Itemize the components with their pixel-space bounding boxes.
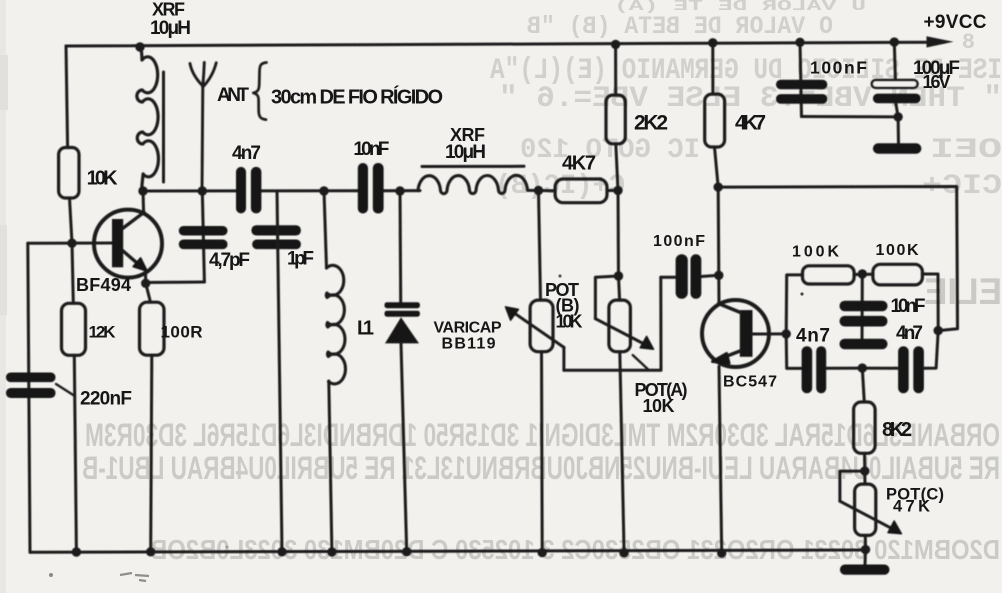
node POT A top bbox=[614, 271, 623, 280]
svg-text:ELIE: ELIE bbox=[924, 271, 1002, 312]
small paper specks bbox=[558, 274, 561, 277]
antenna bbox=[190, 62, 216, 191]
node 100uF 100nF bbox=[893, 112, 902, 121]
node phase bottom bbox=[858, 363, 867, 372]
node collector bus bbox=[138, 186, 147, 195]
svg-text:XRF: XRF bbox=[152, 0, 185, 20]
wire 100nF to 100uF junction bbox=[802, 115, 899, 118]
capacitor 4n7 phase left bbox=[802, 346, 827, 393]
transistor BF494 bbox=[94, 191, 162, 283]
svg-text:4K7: 4K7 bbox=[735, 112, 766, 135]
resistor 8K2 bbox=[854, 402, 876, 453]
wire emitter to 100R bbox=[146, 283, 151, 302]
svg-text:OEI: OEI bbox=[930, 135, 1002, 166]
wire 10K to base node bbox=[70, 198, 73, 243]
svg-text:100K: 100K bbox=[876, 242, 919, 259]
220nF label pointer bbox=[56, 384, 74, 396]
wire +9V top rail bbox=[66, 42, 944, 46]
svg-text:L1: L1 bbox=[357, 318, 374, 340]
svg-text:10μH: 10μH bbox=[150, 18, 191, 39]
wire 100nF left lead bbox=[661, 276, 676, 279]
wire 220nF branch bbox=[28, 243, 30, 552]
varicap BB119 bbox=[385, 302, 420, 343]
svg-text:100nF: 100nF bbox=[653, 233, 705, 250]
capacitor 220nF bbox=[6, 373, 56, 399]
svg-text:4n7: 4n7 bbox=[232, 143, 261, 164]
svg-text:100nF: 100nF bbox=[810, 58, 867, 78]
svg-text:2K2: 2K2 bbox=[634, 112, 668, 135]
wire base node horizontal bbox=[28, 242, 113, 245]
wire coil to 4K7 bbox=[528, 189, 556, 192]
svg-text:4,7pF: 4,7pF bbox=[209, 250, 250, 271]
inductor L1 bbox=[326, 265, 345, 384]
svg-text:16V: 16V bbox=[923, 72, 951, 92]
svg-text:100R: 100R bbox=[161, 323, 203, 342]
capacitor 4.7pF bbox=[179, 226, 228, 249]
transistor BC547 bbox=[702, 300, 786, 553]
wire 12K to ground rail bbox=[74, 355, 76, 552]
resistor 4K7 series bbox=[555, 179, 607, 203]
node BF494 emitter bbox=[141, 279, 150, 288]
capacitor 1pF bbox=[251, 225, 301, 249]
svg-text:10nF: 10nF bbox=[353, 139, 389, 160]
svg-text:BF494: BF494 bbox=[76, 275, 131, 295]
coil core line bbox=[422, 165, 524, 168]
svg-text:+9VCC: +9VCC bbox=[924, 12, 987, 33]
svg-text:4n7: 4n7 bbox=[796, 326, 830, 347]
wire rail to 4K7 bbox=[711, 43, 714, 94]
wire bus to POT B bbox=[539, 190, 541, 300]
node ground right bbox=[861, 545, 870, 554]
inductor XRF 10uH horizontal bbox=[418, 175, 528, 193]
wire main bus segment 2 bbox=[261, 189, 358, 192]
wire varicap to ground rail bbox=[401, 343, 407, 551]
svg-text:8: 8 bbox=[962, 30, 975, 55]
wire 2K2 to bus bbox=[616, 144, 618, 191]
capacitor 10nF phase bbox=[840, 274, 888, 349]
node bus varicap bbox=[395, 186, 404, 195]
wire feedback loop right bbox=[718, 187, 957, 331]
capacitor 100nF decoupling bbox=[776, 80, 827, 104]
wire base to 100K top bbox=[786, 275, 802, 334]
wire right cap to phase right node bbox=[924, 331, 938, 369]
wire 1pF branch to ground bbox=[277, 191, 282, 552]
wire POT A to ground rail bbox=[620, 352, 624, 553]
node antenna bus bbox=[198, 186, 207, 195]
node varicap ground bbox=[402, 547, 411, 556]
wire to top ground bbox=[897, 117, 900, 143]
resistor 2K2 bbox=[606, 95, 625, 144]
wire phase bottom to right cap bbox=[862, 367, 898, 370]
svg-text:4K7: 4K7 bbox=[562, 153, 596, 175]
potentiometer POT A bbox=[595, 276, 653, 352]
svg-text:10nF: 10nF bbox=[891, 296, 926, 317]
svg-text:1pF: 1pF bbox=[287, 249, 314, 270]
node L1 ground bbox=[327, 547, 336, 556]
node phase right bbox=[934, 326, 943, 335]
node rail 12K bbox=[72, 547, 81, 556]
inductor XRF 10uH vertical choke bbox=[137, 46, 159, 192]
resistor 100K second bbox=[873, 264, 923, 285]
node collector 100nF bbox=[714, 271, 723, 280]
ground symbol right bbox=[840, 550, 890, 575]
wire 100K1 to 100K2 bbox=[854, 273, 873, 276]
svg-text:10K: 10K bbox=[87, 167, 119, 189]
svg-text:10K: 10K bbox=[556, 312, 583, 332]
wire antenna line down through 4.7pF bbox=[202, 191, 204, 282]
ground symbol top right bbox=[873, 143, 922, 153]
node rail 100R bbox=[146, 547, 155, 556]
ANT brace bbox=[253, 63, 266, 120]
svg-text:O VALOR DE BETA (B) "B: O VALOR DE BETA (B) "B bbox=[527, 12, 833, 41]
capacitor 10nF series bbox=[358, 163, 384, 214]
wire 100K2 right lead bbox=[922, 274, 938, 331]
wire base node to 12K bbox=[72, 243, 73, 303]
svg-text:4n7: 4n7 bbox=[896, 323, 923, 344]
node 4K7 feedback bbox=[714, 182, 723, 191]
potentiometer POT C bbox=[840, 471, 902, 535]
node bus POT B bbox=[534, 186, 543, 195]
node bus 2K2 bbox=[613, 186, 622, 195]
node POT B ground bbox=[538, 548, 547, 557]
wire main bus segment 3 bbox=[383, 189, 420, 192]
node rail 4K7 bbox=[708, 38, 717, 47]
+9VCC supply arrow bbox=[927, 36, 954, 47]
capacitor 4n7 phase right bbox=[898, 346, 924, 393]
svg-text:ANT: ANT bbox=[217, 85, 249, 106]
svg-text:10μH: 10μH bbox=[445, 142, 486, 163]
wire 4K7 to 2K2 node bbox=[607, 189, 618, 192]
wire 100uF to ground node bbox=[896, 103, 898, 117]
svg-text:100K: 100K bbox=[792, 244, 839, 261]
wire 100R to ground rail bbox=[151, 355, 152, 552]
node choke top rail bbox=[135, 42, 144, 51]
choke core line bbox=[162, 72, 165, 182]
node rail 100nF decoupling bbox=[795, 38, 804, 47]
wire emitter to 4.7pF branch bbox=[146, 281, 205, 285]
resistor 10K bbox=[59, 148, 79, 199]
wire rail to 2K2 bbox=[614, 44, 617, 95]
wire bottom ground rail bbox=[30, 550, 866, 552]
node POT A ground bbox=[619, 548, 628, 557]
node 100K junction bbox=[858, 269, 867, 278]
wire L1 to ground rail bbox=[329, 381, 332, 552]
capacitor 4n7 input bbox=[236, 167, 261, 214]
wire base to 4n7 bottom bbox=[786, 334, 801, 369]
node rail 2K2 bbox=[611, 40, 620, 49]
node 8K2 POT C bbox=[860, 466, 869, 475]
svg-text:BC547: BC547 bbox=[723, 374, 777, 391]
node BC547 emitter ground bbox=[717, 548, 726, 557]
svg-text:VARICAP: VARICAP bbox=[434, 320, 502, 337]
wire phase bottom middle bbox=[826, 367, 862, 370]
capacitor 100nF coupling bbox=[676, 254, 702, 298]
wire POT B to ground rail bbox=[540, 352, 544, 553]
node 1pF ground bbox=[277, 547, 286, 556]
wire rail to 10K bbox=[66, 46, 68, 148]
wire rail to 100uF bbox=[894, 42, 895, 80]
wire phase bottom to 8K2 bbox=[862, 368, 864, 402]
wire 4K7 to feedback node bbox=[715, 147, 719, 187]
wire 2K2 node to POT A bbox=[618, 190, 620, 300]
resistor 12K bbox=[62, 303, 86, 355]
resistor 100K first bbox=[803, 266, 855, 284]
node BC547 base bbox=[782, 329, 791, 338]
svg-text:BB119: BB119 bbox=[442, 336, 496, 353]
wire 8K2 to POT C node bbox=[863, 453, 866, 471]
wire main bus segment 1 bbox=[143, 189, 236, 192]
node bus L1 bbox=[319, 186, 328, 195]
capacitor 100uF electrolytic bbox=[872, 80, 921, 103]
svg-text:30cm DE FIO RÍGIDO: 30cm DE FIO RÍGIDO bbox=[271, 86, 443, 109]
svg-text:47K: 47K bbox=[893, 498, 930, 516]
svg-text:12K: 12K bbox=[89, 323, 117, 342]
svg-text:10K: 10K bbox=[643, 396, 675, 416]
svg-text:8K2: 8K2 bbox=[882, 419, 912, 441]
svg-text:IC GOTO 120: IC GOTO 120 bbox=[520, 135, 700, 166]
wire bus to varicap bbox=[399, 191, 403, 302]
wire 100nF decoupling branch bbox=[800, 42, 802, 116]
node rail 100uF bbox=[890, 37, 899, 46]
node base divider bbox=[67, 239, 76, 248]
wire POT C to ground bbox=[864, 535, 867, 549]
wire 100nF right lead bbox=[701, 275, 719, 276]
wire bus to L1 bbox=[324, 191, 327, 268]
potentiometer POT B bbox=[506, 300, 564, 370]
POT A label pointer bbox=[633, 355, 649, 370]
svg-text:220nF: 220nF bbox=[80, 389, 132, 410]
wire 100nF to pots bbox=[564, 277, 661, 370]
wire collector BC547 bbox=[717, 187, 721, 304]
resistor 100R bbox=[140, 302, 165, 355]
resistor 4K7 collector bbox=[705, 94, 725, 147]
